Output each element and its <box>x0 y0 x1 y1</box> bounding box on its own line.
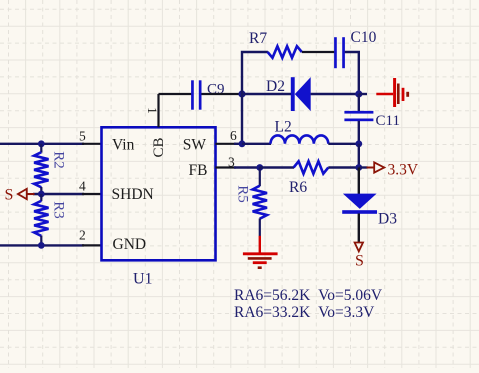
node junction SHDN/R2/R3 <box>38 191 45 198</box>
svg-text:2: 2 <box>79 228 86 243</box>
svg-text:6: 6 <box>230 128 237 143</box>
pin 3 (FB) of U1 <box>216 166 237 168</box>
power port S (bottom) <box>355 243 363 252</box>
ground (below R5, red) <box>259 236 261 253</box>
svg-text:S: S <box>355 253 364 270</box>
svg-text:3.3V: 3.3V <box>388 162 419 179</box>
node junction R6/D3/3.3V <box>355 164 362 171</box>
resistor R3 <box>40 194 42 201</box>
svg-text:SHDN: SHDN <box>112 186 154 203</box>
svg-text:1: 1 <box>145 107 160 114</box>
svg-text:RA6=56.2K Vo=5.06V: RA6=56.2K Vo=5.06V <box>234 287 383 304</box>
wire Vin net (pin 5 row, left) <box>0 143 84 145</box>
diode D2 <box>291 77 295 111</box>
capacitor C9 <box>191 80 194 109</box>
wire D2 row left <box>242 93 291 95</box>
pin 5 of U1 <box>82 143 102 145</box>
svg-text:R6: R6 <box>289 179 307 196</box>
svg-text:U1: U1 <box>133 271 153 288</box>
svg-text:L2: L2 <box>275 119 292 136</box>
node junction SW/V1 <box>239 140 246 147</box>
svg-text:FB: FB <box>189 162 208 179</box>
svg-text:R2: R2 <box>51 151 67 169</box>
pin 1 (CB) of U1 <box>157 94 159 127</box>
svg-text:5: 5 <box>79 129 86 144</box>
capacitor C10 <box>334 37 337 68</box>
svg-text:D3: D3 <box>378 211 397 228</box>
svg-text:S: S <box>5 187 14 204</box>
wire GND net (pin 2 row) <box>0 244 84 246</box>
wire SHDN net (pin 4 row) <box>33 193 84 195</box>
svg-text:CB: CB <box>151 137 167 157</box>
wire L2 to node <box>328 143 359 145</box>
wire C10 down to D2 node <box>345 52 359 94</box>
svg-text:R7: R7 <box>249 30 267 47</box>
node junction Vin/R2 <box>38 140 45 147</box>
svg-text:SW: SW <box>183 137 207 154</box>
svg-text:D2: D2 <box>266 78 285 95</box>
node junction D2/C10/C11 <box>355 90 362 97</box>
wire D2 to right node <box>311 93 359 95</box>
wire vertical V1 (top row to SW) <box>242 52 268 144</box>
resistor R7 <box>268 46 302 58</box>
resistor R2 <box>40 144 42 153</box>
capacitor C11 <box>358 94 360 111</box>
wire FB node to R6 <box>260 166 294 168</box>
power port 3.3V <box>359 166 368 168</box>
wire R7 to C10 <box>302 51 335 53</box>
svg-text:C10: C10 <box>351 29 377 46</box>
wire C9 to node <box>201 93 242 95</box>
inductor L2 <box>271 135 329 143</box>
wire CB to C9 <box>159 93 192 95</box>
svg-text:R5: R5 <box>235 185 251 203</box>
wire R6 to node <box>328 166 359 168</box>
power port S (left) <box>27 193 35 195</box>
svg-text:3: 3 <box>228 155 235 170</box>
node junction L2/C11 <box>355 140 362 147</box>
svg-text:GND: GND <box>113 236 147 253</box>
node junction FB/R5 <box>256 164 263 171</box>
pin 2 of U1 <box>82 244 102 246</box>
svg-text:Vin: Vin <box>112 137 135 154</box>
svg-text:R3: R3 <box>51 201 67 219</box>
ground (right, red sideways) <box>376 93 393 95</box>
svg-text:RA6=33.2K Vo=3.3V: RA6=33.2K Vo=3.3V <box>234 304 375 321</box>
diode D3 <box>358 168 360 195</box>
svg-text:4: 4 <box>79 179 86 194</box>
pin 6 (SW) of U1 <box>216 143 237 145</box>
pin 4 of U1 <box>82 193 102 195</box>
node junction C9/vertical <box>238 90 245 97</box>
wire SW to L2 <box>242 143 271 145</box>
op-amp U1 regulator box <box>102 127 216 260</box>
wire D3 to S port <box>358 214 360 243</box>
resistor R5 <box>259 168 261 187</box>
svg-text:C11: C11 <box>376 113 400 129</box>
node junction GND/R3 <box>38 242 45 249</box>
wire stub to right ground <box>359 93 367 95</box>
resistor R6 <box>294 161 329 173</box>
